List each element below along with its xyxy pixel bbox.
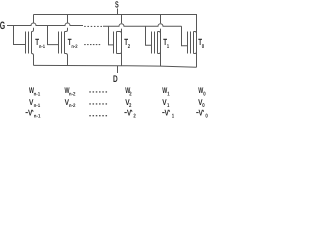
label V2: [125, 97, 131, 109]
wire: gate bus G left section with hops over drain leads: [7, 23, 83, 26]
svg-text:n-1: n-1: [34, 114, 41, 120]
label -V'0: [196, 108, 208, 120]
label T0: [198, 37, 204, 50]
label Tn-1: [35, 37, 45, 50]
label -V'1: [162, 108, 174, 120]
label V1: [162, 97, 169, 109]
label -V'2: [124, 108, 135, 120]
ellipsis dots label row 1: [89, 91, 107, 92]
wire: drain lead of T1 (upper segment above wire hop): [160, 15, 162, 24]
svg-text:V: V: [127, 108, 132, 118]
label V0: [198, 97, 205, 109]
label T2: [124, 37, 130, 50]
label W1: [162, 86, 170, 98]
wire: drain lead of Tn-2 (upper segment above wire hop): [67, 15, 69, 24]
transistor Tn-2: [48, 26, 68, 66]
svg-text:n-1: n-1: [34, 91, 41, 97]
svg-text:2: 2: [128, 44, 130, 50]
svg-text:0: 0: [203, 91, 205, 97]
label Vn-1: [29, 97, 40, 109]
svg-text:S: S: [115, 0, 119, 9]
svg-text:n-2: n-2: [71, 44, 77, 50]
svg-text:0: 0: [205, 114, 207, 120]
transistor T2: [109, 26, 122, 65]
node: transistor row ellipsis dots: [84, 44, 100, 45]
svg-text:2: 2: [133, 114, 135, 120]
label Vn-2: [65, 97, 76, 109]
transistor T0: [182, 26, 197, 67]
svg-text:V: V: [28, 108, 33, 118]
ellipsis dots label row 3: [89, 115, 107, 116]
svg-text:0: 0: [202, 44, 204, 50]
svg-text:V: V: [165, 108, 170, 118]
svg-text:1: 1: [167, 44, 169, 50]
svg-text:1: 1: [172, 114, 174, 120]
wire: S terminal stub: [117, 9, 119, 15]
svg-text:1: 1: [167, 91, 169, 97]
node: gate bus ellipsis dots: [84, 26, 102, 27]
label -V'n-1: [26, 108, 41, 120]
svg-text:n-1: n-1: [39, 44, 45, 50]
ellipsis dots label row 2: [89, 103, 107, 104]
label Wn-1: [29, 86, 40, 98]
label W2: [125, 86, 131, 98]
wire: drain lead of T2 (upper segment above wire hop): [121, 15, 123, 24]
svg-text:n-2: n-2: [69, 91, 76, 97]
svg-text:D: D: [113, 74, 118, 85]
wire: bottom drain rail D: [34, 65, 197, 67]
wire: gate bus G right section with hops over drain leads: [103, 24, 182, 27]
svg-text:V: V: [199, 108, 204, 118]
wire: drain lead of Tn-1 (upper segment above wire hop): [33, 15, 35, 24]
wire: top source rail S: [34, 15, 197, 30]
svg-text:n-1: n-1: [34, 103, 41, 109]
label W0: [198, 86, 205, 98]
transistor T1: [146, 26, 161, 66]
label Wn-2: [65, 86, 76, 98]
label Tn-2: [68, 37, 78, 50]
svg-text:G: G: [0, 20, 5, 32]
svg-text:n-2: n-2: [69, 103, 76, 109]
label T1: [163, 37, 169, 50]
wire: D terminal stub: [117, 66, 119, 73]
transistor Tn-1: [14, 26, 34, 66]
